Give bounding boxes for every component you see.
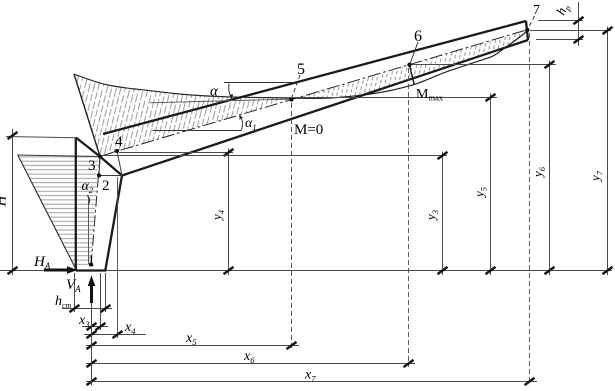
y7 dimension	[607, 27, 609, 276]
node 3	[98, 154, 102, 158]
svg-text:5: 5	[297, 61, 305, 78]
svg-text:2: 2	[102, 178, 110, 194]
moment diagram left edge at knee	[74, 74, 100, 157]
node 6 with leader	[407, 63, 411, 67]
alpha1 angle (axis vs horizontal)	[153, 130, 242, 132]
column axis (dash-dot)	[91, 157, 100, 266]
y6 dimension	[549, 61, 551, 276]
svg-text:3: 3	[88, 158, 96, 174]
svg-text:α: α	[210, 84, 219, 100]
beam axis (dash-dot)	[100, 30, 527, 157]
beam tip face	[526, 21, 528, 40]
node 4	[115, 149, 119, 153]
knee edges	[76, 138, 122, 176]
svg-text:4: 4	[115, 134, 123, 150]
x7 dimension	[86, 381, 537, 383]
column moment diagram top edge	[18, 155, 99, 157]
H dimension line	[12, 129, 14, 275]
x4 dimension	[84, 334, 146, 336]
common left extension for x dims	[91, 276, 93, 386]
rafter moment diagram hatch	[74, 74, 292, 156]
y4 dimension	[228, 149, 230, 276]
svg-text:1: 1	[88, 254, 96, 270]
svg-text:6: 6	[414, 28, 422, 45]
column outline	[76, 138, 122, 271]
y3 dimension	[442, 152, 444, 276]
svg-text:H: H	[0, 194, 10, 207]
moment curve on rafter	[74, 31, 527, 98]
svg-text:7: 7	[533, 3, 540, 18]
node 5 with leader	[289, 97, 293, 101]
alpha2 angle (column axis vs vertical)	[87, 196, 90, 205]
node 2	[97, 173, 101, 177]
node 1	[89, 262, 93, 266]
x6 dimension	[86, 363, 415, 365]
column moment diagram hatch	[18, 155, 99, 269]
y5 dimension	[490, 94, 492, 276]
M ordinate at node 6	[409, 65, 414, 85]
base reference line	[0, 270, 612, 272]
svg-text:M=0: M=0	[294, 122, 323, 138]
rafter moment diagram hatch right lens	[291, 31, 527, 100]
hp dimension	[578, 2, 580, 46]
node 7 with leader	[525, 28, 529, 32]
alpha2 vertical reference	[88, 196, 90, 264]
column moment diagram hypotenuse	[18, 155, 76, 269]
reference line to node 5	[150, 99, 292, 103]
beam bottom edge	[122, 40, 528, 176]
member joint lines at knee	[99, 151, 122, 176]
H_A force arrow	[44, 269, 70, 272]
V_A force arrow	[90, 284, 93, 303]
beam top edge	[103, 21, 526, 134]
x3 dimension	[82, 326, 108, 328]
x5 dimension	[86, 345, 299, 347]
h_st dimension	[62, 308, 112, 310]
alpha angle (top edge vs horizontal)	[224, 82, 293, 84]
